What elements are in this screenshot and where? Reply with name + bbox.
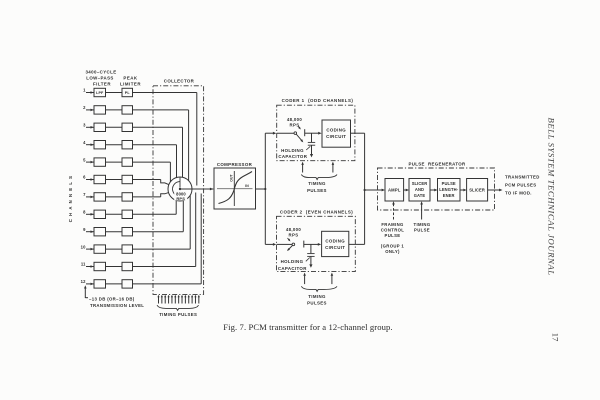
collector dash-dot enclosure	[153, 86, 204, 295]
svg-text:FRAMING: FRAMING	[381, 222, 404, 227]
svg-text:CIRCUIT: CIRCUIT	[326, 134, 346, 139]
svg-text:CODING: CODING	[326, 127, 346, 132]
svg-text:RPS: RPS	[289, 233, 299, 238]
channel 10 input arrow	[86, 248, 94, 251]
wire channel 10 to collector contact	[133, 195, 191, 249]
timing pulse arrow into slicer and gate	[420, 201, 423, 219]
svg-text:LOW–PASS: LOW–PASS	[86, 76, 114, 81]
channel 5 input arrow	[86, 161, 94, 164]
channel 1 input arrow	[86, 91, 94, 94]
channel 7 input label	[83, 192, 86, 197]
coder 2 timing pulses brace	[301, 286, 337, 291]
compressor box	[214, 162, 256, 209]
svg-text:(GROUP 1: (GROUP 1	[381, 244, 405, 249]
channel 4 input arrow	[86, 143, 94, 146]
low-pass filter box channel 11	[94, 262, 106, 270]
wire LPF to PL channel 11	[106, 266, 123, 268]
wire channel 4 to collector contact	[133, 145, 177, 178]
channel 8 input arrow	[86, 213, 94, 216]
channel 5 input label	[83, 157, 86, 162]
wire LPF to PL channel 1	[106, 92, 123, 94]
low-pass filter box channel 10	[94, 245, 106, 253]
svg-text:IN: IN	[245, 184, 249, 188]
peak limiter box channel 11	[122, 262, 133, 270]
svg-text:HOLDING: HOLDING	[281, 148, 304, 153]
collector wiper output arrow to compressor	[180, 188, 213, 191]
compressor transfer curve axes	[217, 171, 253, 206]
svg-text:LIMITER: LIMITER	[120, 82, 141, 87]
low-pass filter box channel 6	[94, 175, 106, 183]
low-pass filter box channel 8	[94, 210, 106, 218]
pulse regenerator dash-dot enclosure	[378, 168, 495, 210]
peak limiter box channel 3	[122, 123, 133, 131]
svg-text:CAPACITOR: CAPACITOR	[278, 154, 307, 159]
wire combined signal to pulse regenerator	[365, 189, 385, 192]
channel 6 input arrow	[86, 178, 94, 181]
channel 2 input label	[83, 105, 86, 110]
coder 1 label timing pulses	[307, 181, 327, 193]
coder 2 sampling switch S2	[277, 238, 304, 251]
amplifier box AMPL	[385, 179, 404, 202]
svg-text:CIRCUIT: CIRCUIT	[325, 245, 345, 250]
wire AMPL to slicer and gate	[404, 189, 409, 192]
wire channel 11 to collector contact	[133, 193, 196, 267]
figure caption	[223, 322, 392, 332]
wire LPF to PL channel 4	[106, 144, 123, 146]
coder 2 holding capacitor C2	[307, 244, 314, 264]
low-pass filter box channel 2	[94, 106, 106, 114]
svg-text:COMPRESSOR: COMPRESSOR	[217, 162, 253, 167]
channel 1 input label	[83, 88, 86, 93]
svg-text:COLLECTOR: COLLECTOR	[164, 79, 195, 84]
wire compressor output to split node	[256, 188, 266, 190]
low-pass filter box channel 9	[94, 228, 106, 236]
collector value label 8000 RPS	[174, 191, 187, 201]
channel 6 input label	[83, 175, 86, 180]
svg-text:TIMING: TIMING	[414, 222, 431, 227]
split node junction	[264, 188, 266, 190]
channel 12 input arrow	[86, 283, 94, 286]
coder 2 dash-dot enclosure	[277, 216, 356, 271]
svg-text:LENGTH-: LENGTH-	[439, 187, 458, 192]
wire channel 2 to collector contact	[133, 110, 189, 181]
peak limiter PL channel 1	[122, 88, 133, 96]
compressor curve IN label	[245, 184, 249, 188]
wire channel 12 to collector contact	[133, 194, 202, 284]
framing control pulse dashed arrow	[392, 201, 395, 219]
svg-text:LPF: LPF	[96, 91, 104, 95]
svg-text:CHANNELS: CHANNELS	[68, 173, 73, 222]
wire channel 7 to collector contact (jog)	[133, 192, 170, 197]
wire LPF to PL channel 12	[106, 283, 123, 285]
coder 1 coding circuit box	[322, 120, 351, 147]
output slicer box	[467, 179, 488, 202]
svg-text:Fig. 7. PCM transmitter for a: Fig. 7. PCM transmitter for a 12-channel…	[223, 322, 392, 332]
svg-text:BELL SYSTEM TECHNICAL JOURNAL: BELL SYSTEM TECHNICAL JOURNAL	[547, 118, 557, 276]
wire channel 3 to collector contact	[133, 127, 183, 177]
channel 9 input label	[83, 227, 86, 232]
svg-text:PULSE: PULSE	[385, 233, 401, 238]
wire coder outputs combining bus	[364, 133, 366, 244]
svg-text:CODER 2 (EVEN CHANNELS): CODER 2 (EVEN CHANNELS)	[280, 209, 353, 214]
peak limiter box channel 8	[122, 210, 133, 218]
label 3400-cycle low-pass filter	[85, 70, 116, 87]
svg-text:PL: PL	[125, 91, 131, 95]
svg-text:–13 DB (OR–16 DB): –13 DB (OR–16 DB)	[89, 296, 135, 301]
svg-text:PULSES: PULSES	[307, 188, 327, 193]
svg-text:PCM PULSES: PCM PULSES	[505, 183, 536, 188]
svg-text:AND: AND	[415, 187, 424, 192]
low-pass filter box channel 4	[94, 141, 106, 149]
coder 1 timing pulse arrows	[301, 162, 334, 173]
collector commutator (8000 RPS rotary switch)	[168, 177, 192, 201]
channel 3 input label	[83, 123, 86, 128]
transmission level arrow	[84, 285, 88, 298]
coder 1 dash-dot enclosure	[277, 105, 355, 161]
wire LPF to PL channel 3	[106, 126, 123, 128]
svg-text:48,000: 48,000	[286, 227, 302, 232]
wire LPF to PL channel 6	[106, 179, 123, 181]
wire slicer-gate to pulse lengthener	[430, 189, 438, 192]
svg-text:ONLY): ONLY)	[385, 249, 400, 254]
pulse lengthener box	[438, 179, 461, 202]
channel 8 input label	[83, 210, 86, 215]
svg-text:17: 17	[550, 333, 559, 342]
svg-text:TRANSMISSION LEVEL: TRANSMISSION LEVEL	[90, 303, 144, 308]
wire pulse lengthener to slicer	[460, 189, 467, 192]
svg-text:HOLDING: HOLDING	[281, 259, 304, 264]
compressor curve OUT label	[230, 173, 234, 181]
coder 1 holding capacitor C1	[308, 133, 315, 154]
svg-text:TIMING PULSES: TIMING PULSES	[159, 312, 197, 317]
svg-text:PULSE REGENERATOR: PULSE REGENERATOR	[408, 161, 466, 166]
coder 2 label timing pulses	[307, 294, 327, 306]
page number 17 (rotated)	[550, 333, 559, 342]
wire channel 5 to collector contact	[133, 162, 171, 182]
peak limiter box channel 9	[122, 228, 133, 236]
channel 4 input label	[83, 140, 86, 145]
svg-text:48,000: 48,000	[287, 117, 303, 122]
coder 1 title	[282, 98, 354, 103]
slicer and gate box	[409, 179, 430, 202]
peak limiter box channel 7	[122, 193, 133, 201]
channel 2 input arrow	[86, 109, 94, 112]
wire channel 6 to collector contact (jog)	[133, 180, 170, 185]
coder 1 sampling switch value 48,000 RPS	[287, 117, 303, 128]
coder 2 sampling switch value 48,000 RPS	[286, 227, 302, 238]
label -13 db transmission level	[89, 296, 144, 308]
pulse regenerator title	[408, 161, 466, 166]
low-pass filter LPF channel 1	[94, 88, 106, 96]
label peak limiter	[120, 76, 141, 87]
channel 9 input arrow	[86, 230, 94, 233]
wire channel 9 to collector contact	[133, 201, 184, 232]
wire LPF to PL channel 10	[106, 248, 123, 250]
wire LPF to PL channel 2	[106, 109, 123, 111]
label channels (vertical)	[68, 173, 73, 222]
wire split node to coder 2	[265, 189, 276, 246]
svg-text:RPS: RPS	[176, 196, 185, 201]
svg-text:FILTER: FILTER	[93, 82, 111, 87]
svg-text:CONTROL: CONTROL	[381, 227, 405, 232]
transmitted output arrow	[488, 189, 503, 192]
channel 11 input label	[81, 262, 86, 267]
svg-text:PULSE: PULSE	[414, 227, 430, 232]
wire coder 1 output	[351, 132, 365, 134]
low-pass filter box channel 3	[94, 123, 106, 131]
svg-text:10: 10	[81, 244, 86, 249]
svg-text:OUT: OUT	[230, 173, 234, 181]
peak limiter box channel 12	[122, 280, 133, 288]
coder 1 wire switch to coding circuit	[305, 132, 322, 135]
svg-text:3400–CYCLE: 3400–CYCLE	[85, 70, 116, 75]
channel 11 input arrow	[86, 265, 94, 268]
compressor S-curve	[219, 172, 253, 204]
wire channel 8 to collector contact	[133, 200, 177, 214]
wire LPF to PL channel 7	[106, 196, 123, 198]
svg-text:CAPACITOR: CAPACITOR	[278, 266, 307, 271]
svg-text:SLICER: SLICER	[412, 181, 428, 186]
svg-text:PEAK: PEAK	[123, 76, 138, 81]
wire coder 2 output	[349, 243, 365, 245]
wire split node to coder 1	[265, 132, 276, 189]
svg-text:RPS: RPS	[290, 123, 300, 128]
svg-text:CODING: CODING	[325, 239, 345, 244]
svg-text:ENER: ENER	[443, 193, 455, 198]
peak limiter box channel 2	[122, 106, 133, 114]
channel 7 input arrow	[86, 196, 94, 199]
combining node junction	[364, 189, 366, 191]
coder 1 timing pulses brace	[301, 175, 337, 180]
peak limiter box channel 5	[122, 158, 133, 166]
svg-text:PULSE: PULSE	[442, 181, 456, 186]
coder 2 timing pulse arrows	[303, 273, 333, 285]
label timing pulse	[414, 222, 431, 232]
coder 2 coding circuit box	[322, 231, 349, 256]
svg-text:PULSES: PULSES	[307, 301, 327, 306]
coder 2 capacitor ground arrow	[309, 264, 312, 267]
journal running head (rotated)	[547, 118, 557, 276]
coder 2 label holding capacitor	[278, 258, 310, 271]
wire channel 1 to collector contact	[133, 93, 197, 186]
channel 10 input label	[81, 244, 86, 249]
coder 1 sampling switch S1	[277, 126, 305, 142]
svg-text:12: 12	[81, 279, 86, 284]
svg-text:CODER 1 (ODD CHANNELS): CODER 1 (ODD CHANNELS)	[282, 98, 354, 103]
label framing control pulse	[381, 222, 405, 238]
label transmitted pcm pulses to if mod	[505, 175, 540, 196]
low-pass filter box channel 5	[94, 158, 106, 166]
svg-text:TIMING: TIMING	[308, 181, 326, 186]
svg-text:11: 11	[81, 262, 86, 267]
collector timing pulses brace	[157, 305, 199, 310]
coder 2 wire switch to coding circuit	[304, 243, 321, 246]
low-pass filter box channel 7	[94, 193, 106, 201]
peak limiter box channel 10	[122, 245, 133, 253]
svg-text:TIMING: TIMING	[308, 294, 326, 299]
wire LPF to PL channel 8	[106, 213, 123, 215]
coder 1 label holding capacitor	[278, 146, 310, 159]
channel 12 input label	[81, 279, 86, 284]
svg-text:TRANSMITTED: TRANSMITTED	[505, 175, 540, 180]
svg-text:GATE: GATE	[414, 193, 426, 198]
label collector	[164, 79, 195, 84]
svg-text:AMPL: AMPL	[388, 188, 401, 193]
low-pass filter box channel 12	[94, 280, 106, 288]
coder 1 capacitor ground arrow	[310, 154, 313, 157]
label timing pulses (collector)	[159, 312, 197, 317]
svg-text:SLICER: SLICER	[469, 188, 485, 193]
wire LPF to PL channel 5	[106, 161, 123, 163]
coder 2 title	[280, 209, 353, 214]
peak limiter box channel 4	[122, 141, 133, 149]
wire LPF to PL channel 9	[106, 231, 123, 233]
channel 3 input arrow	[86, 126, 94, 129]
label group 1 only	[381, 244, 405, 254]
collector timing pulses arrows	[157, 295, 200, 304]
peak limiter box channel 6	[122, 175, 133, 183]
svg-text:TO IF MOD.: TO IF MOD.	[505, 191, 532, 196]
